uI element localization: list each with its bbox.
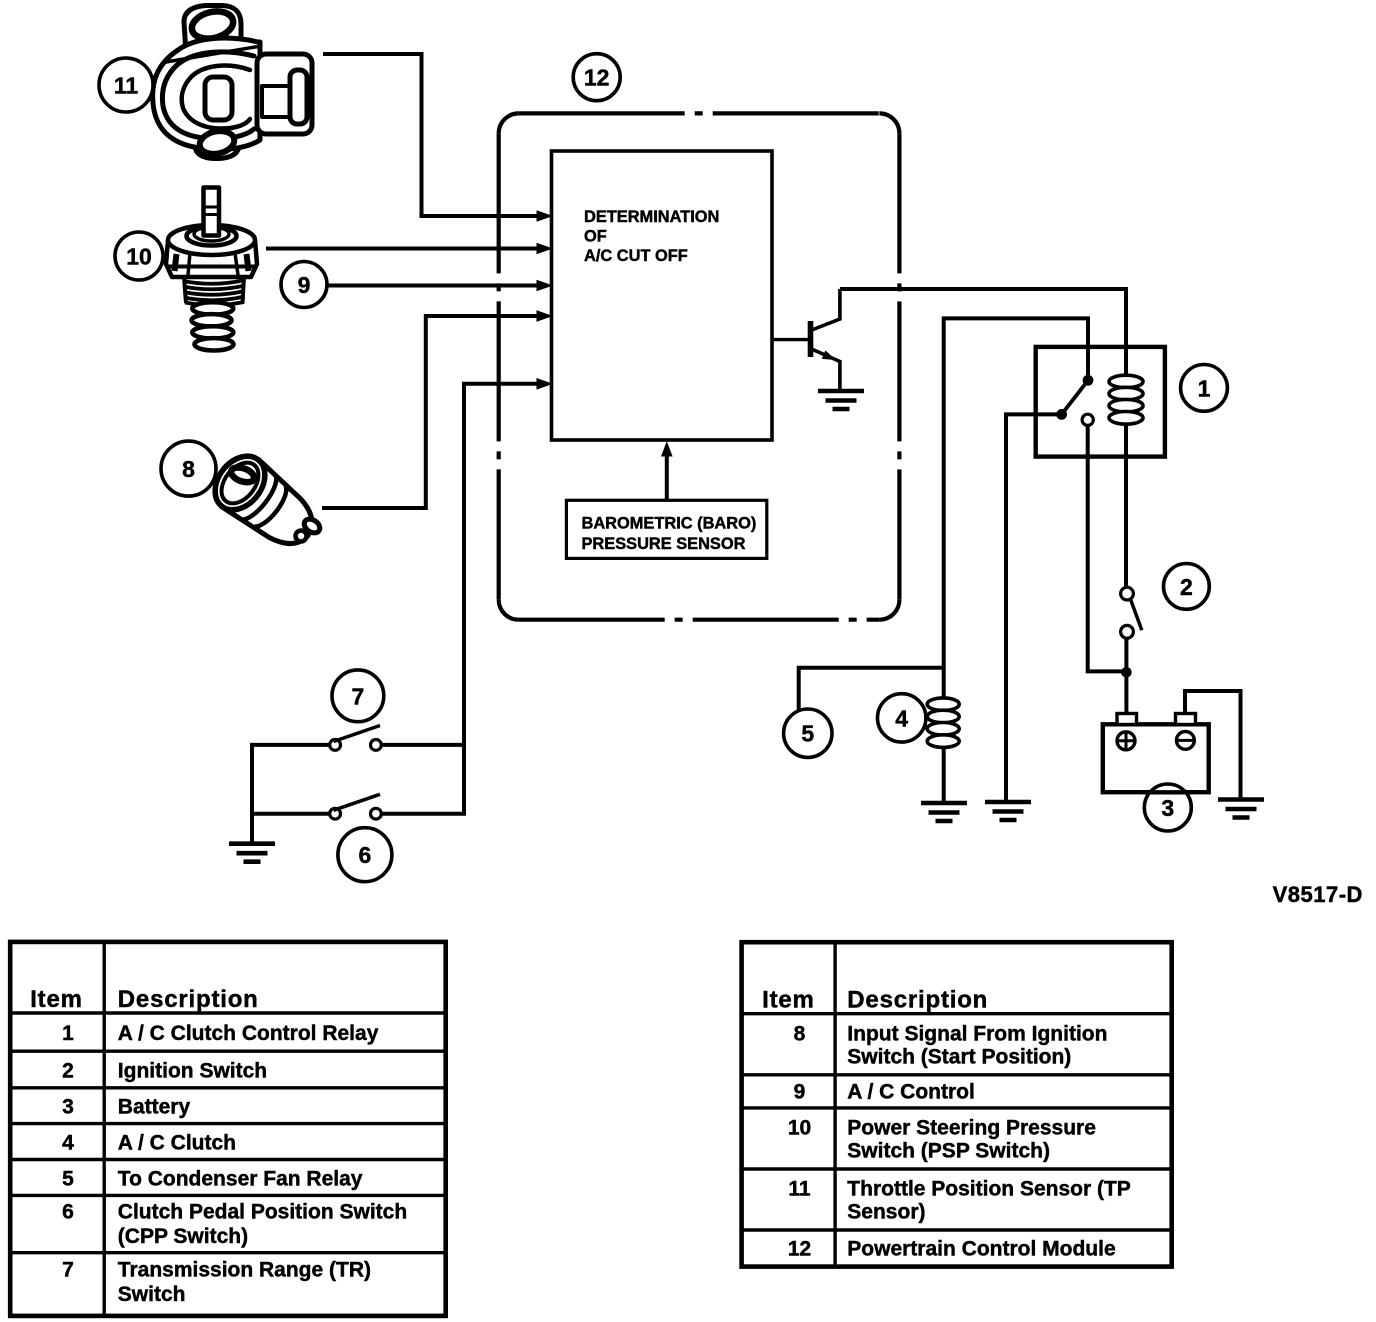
svg-text:Clutch Pedal Position Switch: Clutch Pedal Position Switch	[118, 1201, 407, 1224]
svg-text:3: 3	[62, 1096, 74, 1119]
svg-text:1: 1	[1198, 375, 1211, 401]
svg-text:2: 2	[62, 1060, 74, 1083]
svg-text:Switch: Switch	[118, 1283, 186, 1306]
svg-text:Item: Item	[762, 987, 815, 1014]
svg-text:Sensor): Sensor)	[847, 1201, 925, 1224]
svg-text:1: 1	[62, 1022, 74, 1045]
svg-text:(CPP Switch): (CPP Switch)	[118, 1225, 248, 1248]
svg-text:Description: Description	[847, 987, 988, 1014]
svg-text:3: 3	[1161, 795, 1174, 821]
svg-text:4: 4	[62, 1132, 74, 1155]
svg-text:7: 7	[62, 1259, 74, 1282]
svg-text:6: 6	[62, 1201, 74, 1224]
svg-text:PRESSURE SENSOR: PRESSURE SENSOR	[582, 535, 746, 553]
svg-text:A / C Clutch Control Relay: A / C Clutch Control Relay	[118, 1022, 379, 1045]
svg-text:9: 9	[298, 272, 311, 298]
svg-text:V8517-D: V8517-D	[1273, 882, 1363, 907]
svg-text:Item: Item	[30, 986, 83, 1013]
svg-text:10: 10	[126, 244, 152, 270]
svg-text:Input Signal From Ignition: Input Signal From Ignition	[847, 1023, 1107, 1046]
svg-text:A/C CUT OFF: A/C CUT OFF	[584, 247, 688, 265]
svg-text:Throttle Position Sensor (TP: Throttle Position Sensor (TP	[847, 1178, 1131, 1201]
svg-text:To Condenser Fan Relay: To Condenser Fan Relay	[118, 1168, 363, 1191]
svg-text:A / C Clutch: A / C Clutch	[118, 1132, 236, 1155]
svg-text:Power Steering Pressure: Power Steering Pressure	[847, 1117, 1096, 1140]
svg-text:5: 5	[62, 1168, 74, 1191]
svg-text:4: 4	[895, 705, 908, 731]
svg-text:7: 7	[352, 683, 365, 709]
svg-text:Switch (PSP Switch): Switch (PSP Switch)	[847, 1140, 1050, 1163]
svg-text:9: 9	[794, 1081, 806, 1104]
svg-text:12: 12	[788, 1238, 811, 1261]
svg-text:5: 5	[801, 721, 814, 747]
svg-text:12: 12	[584, 65, 610, 91]
svg-text:8: 8	[182, 456, 195, 482]
svg-text:OF: OF	[584, 228, 607, 246]
svg-text:Transmission Range (TR): Transmission Range (TR)	[118, 1259, 371, 1282]
svg-text:A / C Control: A / C Control	[847, 1081, 975, 1104]
svg-text:DETERMINATION: DETERMINATION	[584, 208, 719, 226]
svg-text:BAROMETRIC (BARO): BAROMETRIC (BARO)	[582, 515, 757, 533]
svg-text:11: 11	[114, 73, 139, 99]
svg-text:Switch (Start Position): Switch (Start Position)	[847, 1046, 1071, 1069]
svg-text:8: 8	[794, 1023, 806, 1046]
svg-text:2: 2	[1180, 574, 1193, 600]
svg-text:Ignition Switch: Ignition Switch	[118, 1060, 267, 1083]
svg-text:Battery: Battery	[118, 1096, 191, 1119]
svg-text:11: 11	[788, 1178, 811, 1201]
svg-text:Powertrain Control Module: Powertrain Control Module	[847, 1238, 1115, 1261]
svg-text:6: 6	[359, 842, 372, 868]
svg-text:10: 10	[788, 1117, 811, 1140]
svg-text:Description: Description	[118, 986, 259, 1013]
